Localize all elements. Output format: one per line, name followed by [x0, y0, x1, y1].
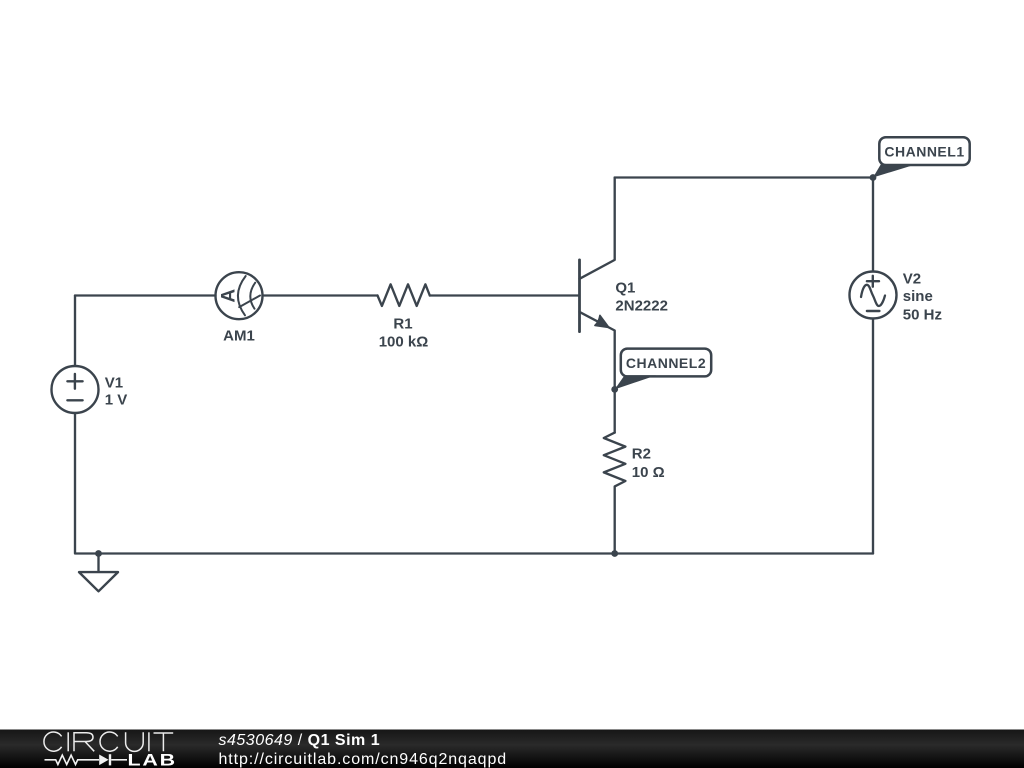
svg-text:V2: V2	[903, 270, 921, 287]
svg-text:50 Hz: 50 Hz	[903, 307, 942, 324]
svg-text:LAB: LAB	[128, 751, 177, 768]
svg-text:V1: V1	[105, 375, 123, 392]
svg-text:http://circuitlab.com/cn946q2n: http://circuitlab.com/cn946q2nqaqpd	[219, 751, 508, 768]
svg-text:A: A	[219, 289, 240, 303]
svg-text:AM1: AM1	[223, 328, 255, 345]
svg-text:2N2222: 2N2222	[615, 297, 668, 314]
svg-text:s4530649 / Q1 Sim 1: s4530649 / Q1 Sim 1	[219, 732, 381, 749]
svg-text:1 V: 1 V	[105, 392, 128, 409]
svg-text:Q1: Q1	[615, 280, 635, 297]
svg-text:10 Ω: 10 Ω	[632, 464, 665, 481]
svg-text:CHANNEL1: CHANNEL1	[884, 144, 964, 160]
svg-text:R1: R1	[393, 315, 412, 332]
svg-text:R2: R2	[632, 446, 651, 463]
svg-text:sine: sine	[903, 288, 933, 305]
svg-text:CHANNEL2: CHANNEL2	[626, 355, 706, 371]
svg-text:100 kΩ: 100 kΩ	[379, 334, 429, 351]
